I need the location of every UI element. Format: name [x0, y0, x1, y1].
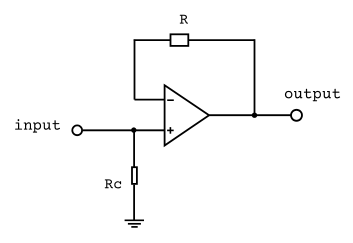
wire feedback right vertical [254, 39, 256, 115]
label output [285, 89, 340, 101]
wire input to op-amp plus [83, 129, 165, 131]
input terminal circle [72, 125, 82, 135]
resistor R [171, 34, 189, 46]
wire R to top-right corner [188, 39, 254, 41]
label input [15, 119, 60, 133]
output terminal circle [291, 110, 302, 121]
wire Rc to ground [133, 185, 135, 221]
non-inverting input plus sign [167, 127, 174, 134]
wire feedback top-left to R [134, 39, 171, 41]
ground [125, 220, 144, 227]
wire junction down to Rc [133, 130, 135, 166]
wire feedback left vertical [134, 39, 136, 99]
op-amp U1 [165, 85, 210, 145]
resistor Rc [132, 167, 137, 184]
wire op-amp output [209, 114, 291, 116]
node junction dot at input [131, 127, 136, 132]
wire minus input horizontal [135, 99, 165, 101]
label R [180, 15, 188, 24]
label Rc [105, 179, 121, 188]
node junction dot at output [252, 113, 257, 118]
inverting input minus sign [167, 99, 174, 101]
